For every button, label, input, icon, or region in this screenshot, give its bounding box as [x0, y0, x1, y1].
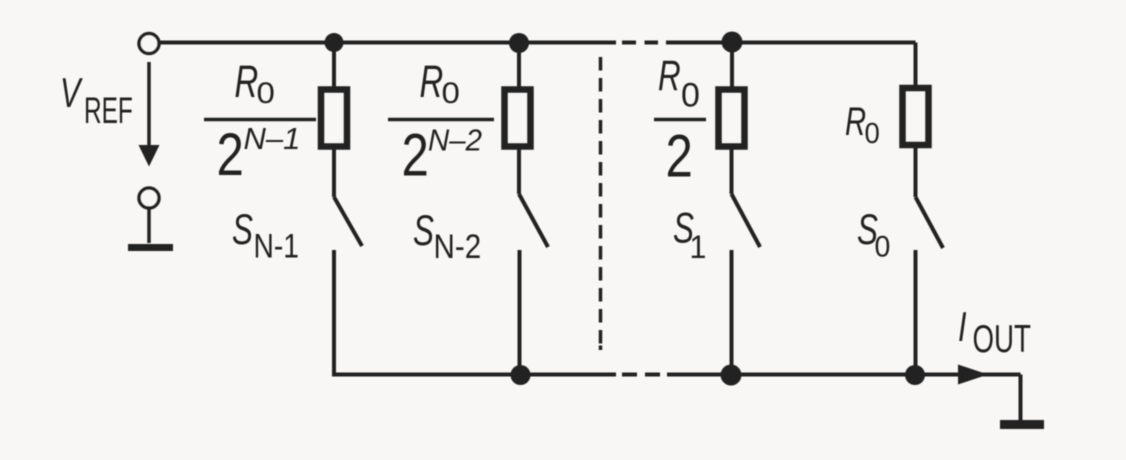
wire SN-2 to bottom bus [518, 250, 522, 375]
arrow IOUT (current direction) [958, 365, 988, 385]
svg-text:0: 0 [865, 116, 880, 149]
svg-text:V: V [60, 69, 83, 116]
svg-text:S: S [413, 206, 434, 254]
label fraction R0/2^N-1 [204, 57, 316, 188]
resistor R0 (branch 0), top bus corner feed [903, 43, 929, 198]
ground (IOUT) [1000, 420, 1044, 429]
svg-text:I: I [958, 303, 967, 350]
svg-text:2: 2 [217, 120, 244, 188]
svg-text:R: R [658, 51, 681, 99]
label VREF [60, 69, 133, 131]
node junction dot 1 (top bus / R branch N-1) [325, 33, 344, 52]
svg-text:N-1: N-1 [254, 227, 299, 265]
resistor R0/2^N-1 (branch N-1) [321, 44, 347, 197]
label fraction R0/2^N-2 [388, 57, 494, 189]
label IOUT [958, 303, 1031, 361]
label S0 [857, 205, 890, 264]
svg-text:0: 0 [875, 231, 891, 264]
svg-text:0: 0 [257, 75, 275, 109]
wire S1 to bottom bus [730, 250, 734, 375]
svg-text:REF: REF [84, 90, 133, 131]
label SN-2 [413, 206, 481, 265]
dashed separator line (omitted branches) [599, 57, 603, 344]
resistor R0/2^N-2 (branch N-2) [505, 44, 531, 194]
wire bottom bus right segment [667, 373, 1021, 377]
svg-text:N–1: N–1 [244, 121, 301, 156]
svg-text:2: 2 [402, 121, 429, 189]
node junction dot 5 (bottom bus / S1) [721, 365, 742, 386]
label R0 (branch 0) [845, 100, 880, 150]
node junction dot 2 (top bus / R branch N-2) [509, 33, 529, 53]
wire IOUT to ground [1019, 375, 1023, 421]
svg-text:N–2: N–2 [428, 124, 482, 158]
ground (VREF) [147, 209, 151, 244]
wire top bus dashed segment [622, 41, 658, 45]
resistor R0/2 (branch 1) [719, 44, 745, 194]
wire bottom bus dashed segment [622, 373, 660, 377]
svg-text:1: 1 [690, 229, 707, 265]
svg-text:0: 0 [681, 77, 700, 115]
terminal lower circle (VREF return) [139, 188, 159, 208]
node junction dot 4 (bottom bus / SN-2) [511, 365, 531, 385]
arrow VREF (downward) [147, 62, 151, 148]
wire top bus left segment [160, 41, 617, 45]
wire SN-1 to bottom bus (corner) [332, 250, 336, 375]
switch SN-1 blade [334, 197, 362, 246]
wire bottom bus left segment (with corner from SN-1) [332, 372, 616, 375]
switch S1 blade [732, 194, 761, 247]
svg-text:N-2: N-2 [434, 227, 482, 265]
wire S0 to bottom bus [914, 250, 918, 375]
terminal VREF (open circle, top left) [139, 34, 159, 54]
svg-text:S: S [232, 205, 253, 253]
switch S0 blade [916, 197, 944, 248]
svg-text:0: 0 [442, 75, 460, 109]
label SN-1 [232, 205, 299, 265]
node junction dot 3 (top bus / R branch 1) [722, 32, 743, 53]
svg-text:OUT: OUT [973, 317, 1031, 361]
label fraction R0/2 [654, 51, 706, 189]
label S1 [673, 204, 706, 266]
svg-text:R: R [235, 57, 259, 107]
switch SN-2 blade [519, 194, 548, 247]
svg-text:2: 2 [666, 122, 693, 190]
svg-text:R: R [845, 100, 866, 145]
node junction dot 6 (bottom bus / S0) [905, 365, 925, 385]
svg-text:R: R [420, 57, 444, 107]
wire top bus right segment [666, 41, 916, 45]
